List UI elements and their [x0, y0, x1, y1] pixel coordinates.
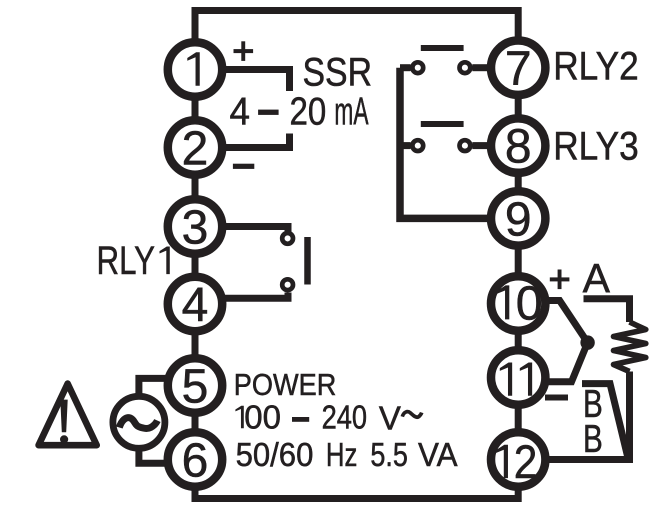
wire: thermocouple junction to terminal 11: [548, 343, 588, 382]
svg-text:2: 2: [182, 123, 209, 176]
wire: RLY3 right contact to terminal 8: [472, 142, 488, 149]
wire: AC source to terminal 6: [139, 450, 172, 463]
label 100: [235, 398, 281, 435]
svg-text:4: 4: [182, 279, 209, 332]
wire: RTD lead A to resistor top: [584, 299, 630, 322]
wire: common to RLY3 left contact: [400, 142, 411, 149]
terminal 9: [491, 191, 545, 246]
svg-text:4: 4: [230, 91, 251, 134]
label RLY1: [97, 239, 170, 283]
wire: controller outline rectangle: [195, 11, 518, 499]
svg-text:2: 2: [514, 435, 538, 488]
resistor RTD sensor: [614, 322, 646, 372]
contact RLY3 left: [412, 140, 423, 151]
terminal 7: [491, 40, 545, 95]
terminal 12: [491, 432, 545, 488]
svg-text:RLY2: RLY2: [553, 44, 639, 88]
terminal 8: [491, 118, 545, 173]
wire: terminal 10 to thermocouple junction: [549, 301, 588, 343]
svg-text:RLY3: RLY3: [553, 125, 639, 169]
label - (terminal 11): [545, 395, 568, 401]
svg-text:Hz: Hz: [326, 436, 358, 473]
terminal 2: [168, 120, 222, 175]
terminal 5: [168, 358, 222, 413]
contact RLY3 bar: [421, 121, 464, 127]
contact RLY2 left: [412, 62, 423, 73]
contact RLY1 bar: [304, 237, 311, 285]
terminal 10: [491, 276, 545, 330]
terminal 11: [491, 350, 545, 404]
contact RLY2 right: [460, 62, 471, 73]
wire: terminal 1 to SSR + lead: [195, 70, 290, 92]
contact RLY1 top: [282, 233, 293, 244]
terminal 4: [168, 277, 222, 332]
svg-text:5.5: 5.5: [370, 436, 408, 473]
label dash (100-240): [292, 417, 309, 422]
wire: RTD lead B to terminal 11 side: [582, 384, 628, 456]
svg-text:VA: VA: [418, 436, 458, 473]
warning triangle: [39, 384, 97, 446]
svg-text:7: 7: [505, 43, 532, 96]
wire: RLY2/RLY3 common to terminal 9: [400, 68, 487, 219]
terminal 1: [168, 42, 222, 96]
svg-text:240: 240: [322, 398, 368, 435]
label - (terminal 2): [233, 164, 254, 169]
svg-text:SSR: SSR: [303, 51, 373, 95]
svg-text:RLY: RLY: [97, 239, 156, 283]
label + (terminal 10): [550, 270, 570, 290]
contact RLY3 right: [460, 140, 471, 151]
svg-text:50/60: 50/60: [236, 436, 314, 473]
wire: RLY2 right contact to terminal 7: [472, 64, 488, 71]
svg-text:9: 9: [505, 193, 532, 246]
svg-text:6: 6: [182, 435, 209, 488]
label + (terminal 1): [234, 41, 254, 61]
terminal 3: [168, 199, 222, 254]
contact RLY2 bar: [421, 45, 464, 51]
label dash (4-20): [258, 110, 279, 115]
wire: terminal 3 to RLY1 contact: [195, 227, 288, 233]
svg-text:B: B: [583, 418, 603, 461]
svg-text:00: 00: [244, 398, 281, 435]
wire: resistor bottom to terminal 12: [549, 372, 630, 460]
wire: AC source to terminal 5: [139, 378, 172, 394]
svg-text:POWER: POWER: [234, 367, 336, 402]
svg-text:V: V: [379, 400, 401, 437]
wire: terminal 2 to SSR - lead: [195, 134, 290, 148]
svg-text:0: 0: [516, 276, 543, 330]
contact RLY1 bottom: [282, 279, 293, 290]
wire: terminal 4 to RLY1 contact: [195, 293, 288, 299]
svg-text:5: 5: [182, 361, 209, 414]
wire: common to RLY2 left contact: [400, 64, 411, 71]
svg-text:8: 8: [505, 121, 532, 174]
svg-text:20: 20: [290, 91, 327, 134]
svg-text:3: 3: [182, 202, 209, 255]
node: thermocouple junction dot: [580, 335, 594, 349]
AC source symbol: [113, 396, 165, 448]
svg-text:mA: mA: [334, 91, 368, 134]
svg-text:A: A: [583, 255, 611, 301]
terminal 6: [168, 432, 222, 487]
